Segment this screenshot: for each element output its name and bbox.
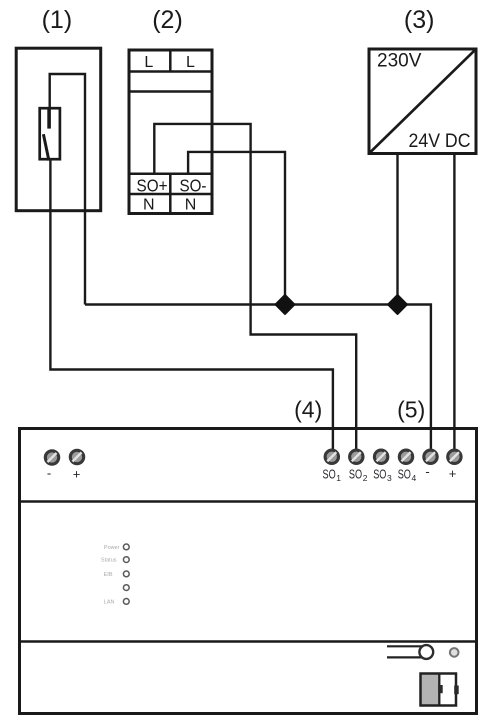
switch S1 [40,108,60,160]
svg-text:L: L [144,54,153,71]
screw terminal plus [448,450,461,463]
svg-text:SO: SO [398,468,411,482]
box (1) pulse sensor enclosure [16,48,101,211]
wire SO- to bus junction [188,152,285,305]
svg-text:EIB: EIB [104,572,113,578]
LED EIB [104,571,130,578]
label SO1 [323,468,342,484]
electricity meter (2) body [129,50,212,214]
label SO2 [349,468,368,484]
screw terminal SO1 [325,450,338,463]
svg-text:L: L [186,54,195,71]
bus connector block [421,674,459,706]
svg-text:(4): (4) [294,397,322,423]
KNX bus screw terminal + [70,450,83,463]
wire from switch bottom to SO1 terminal [50,158,333,450]
LED Status [101,557,129,564]
svg-text:-: - [425,464,429,479]
svg-text:Status: Status [101,558,117,564]
screw terminal SO3 [374,450,387,463]
svg-text:SO+: SO+ [137,175,168,195]
svg-text:(2): (2) [152,6,183,34]
LED Power [104,544,129,551]
svg-text:SO-: SO- [180,175,207,195]
KNX bus screw terminal - [45,451,58,464]
LED LAN [104,599,129,606]
KNX device body [20,429,477,714]
svg-text:(3): (3) [404,6,435,34]
svg-text:+: + [73,467,81,482]
wire PSU minus to bus junction [396,155,398,305]
svg-text:1: 1 [336,473,341,483]
programming button [387,645,433,659]
screw terminal minus [424,450,437,463]
svg-text:LAN: LAN [104,599,115,605]
svg-text:(1): (1) [42,6,73,34]
svg-text:+: + [449,466,457,481]
svg-text:2: 2 [363,473,368,483]
wire SO+ to SO2 terminal [154,124,356,450]
svg-text:Power: Power [104,545,120,551]
svg-text:SO: SO [349,468,362,482]
svg-text:N: N [185,196,197,213]
power supply (3) [369,49,476,154]
svg-text:SO: SO [373,468,386,482]
screw terminal SO2 [350,450,363,463]
svg-text:230V: 230V [377,51,422,72]
svg-text:(5): (5) [397,397,425,423]
junction diamond at SO- [276,295,295,314]
LED 4 [123,585,129,591]
label SO3 [373,468,392,484]
junction diamond at PSU minus [388,295,407,314]
bus wire common to device - terminal [85,305,431,451]
screw terminal SO4 [399,450,412,463]
label SO4 [398,468,417,484]
svg-text:24V DC: 24V DC [409,131,471,152]
svg-text:N: N [143,196,155,213]
wire from switch top to inner loop and down to bus [50,74,85,305]
wire PSU plus to device + terminal [453,155,455,451]
svg-text:4: 4 [412,473,417,483]
svg-text:-: - [47,466,51,481]
svg-text:SO: SO [323,468,336,482]
programming LED [450,648,459,657]
svg-text:3: 3 [387,473,392,483]
